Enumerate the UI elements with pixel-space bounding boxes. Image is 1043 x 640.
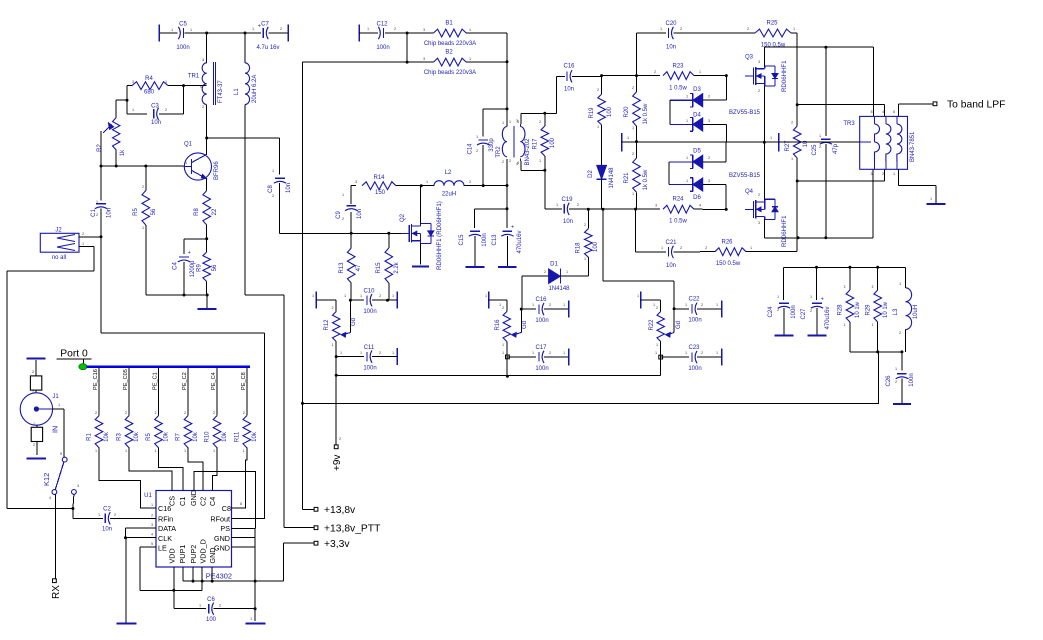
ground Q2 source [412,265,429,267]
svg-text:1: 1 [165,80,167,84]
svg-text:1: 1 [563,351,565,355]
svg-text:+13,8v_PTT: +13,8v_PTT [324,524,381,535]
capacitor C19 [561,197,603,225]
trimmer R12 [324,312,357,342]
svg-text:2: 2 [549,303,551,307]
wire C14 stub [483,109,507,137]
svg-text:1: 1 [899,282,901,286]
svg-text:4.7u 16v: 4.7u 16v [256,45,279,51]
node base-R5 [144,165,147,168]
node R2 top stub [116,99,128,118]
svg-text:1: 1 [566,270,568,274]
wire PS row [237,527,256,529]
svg-text:R28: R28 [838,304,844,316]
resistor R13 [339,233,362,283]
svg-text:R12: R12 [324,319,330,331]
capacitor C20 and riser [637,21,701,76]
resistor R1 [87,411,111,453]
resistor R8 [194,191,218,239]
svg-text:470u16v: 470u16v [825,306,831,329]
pin rect J1 upper [30,376,41,393]
capacitor C16 bias [521,297,568,324]
svg-text:RX: RX [51,585,62,599]
svg-text:PE_C4: PE_C4 [211,372,217,390]
svg-text:C25: C25 [812,144,818,156]
node C27 top [815,266,818,269]
wire K12 out [71,494,103,518]
svg-text:8: 8 [240,502,242,506]
svg-text:2: 2 [502,160,504,164]
svg-text:2: 2 [819,145,821,149]
svg-text:2: 2 [476,149,478,153]
wire R13 node down [349,299,352,333]
wire left border [7,271,73,508]
svg-text:+: + [821,296,824,302]
wire C5-C7 [207,32,245,34]
svg-text:4: 4 [882,110,884,114]
node R20 R21 [635,140,638,143]
transformer TR2 [496,119,531,166]
svg-text:Gd: Gd [351,318,357,326]
wire trimmer2 bottom [506,342,508,377]
svg-text:10n: 10n [102,527,112,533]
source rail [622,133,779,152]
svg-text:100: 100 [607,106,613,117]
svg-text:Q4: Q4 [745,189,754,195]
svg-text:FT43-37: FT43-37 [218,80,224,103]
pad C23 left [659,355,663,359]
net label PE_C05 [123,368,129,415]
svg-text:R14: R14 [373,175,385,181]
wire CLK [124,536,156,539]
svg-text:4: 4 [699,204,701,208]
node D2 bottom [602,208,605,211]
svg-text:B1: B1 [445,21,453,27]
svg-text:47: 47 [356,264,362,271]
svg-text:1: 1 [653,303,655,307]
pin 6 right U1 [232,546,238,548]
svg-text:PE_C1: PE_C1 [153,372,159,390]
svg-text:4: 4 [517,161,519,165]
svg-text:GND: GND [214,534,230,543]
resistor R21 [624,142,649,210]
svg-text:1: 1 [686,156,688,160]
terminal To band LPF [933,100,1005,111]
capacitor C25 [812,47,839,238]
svg-text:100: 100 [593,241,599,252]
capacitor C6 [174,590,255,623]
svg-text:1: 1 [597,125,599,129]
pin 2 left U1 [151,513,157,518]
node bias2 link [506,375,509,378]
svg-text:C24: C24 [768,306,774,318]
svg-text:1: 1 [243,449,245,453]
svg-text:TR2: TR2 [496,146,502,158]
svg-text:2: 2 [155,411,157,415]
svg-text:100n: 100n [688,318,701,324]
svg-text:1: 1 [342,193,344,197]
svg-text:2: 2 [342,217,344,221]
svg-text:10n: 10n [564,87,574,93]
svg-text:R22: R22 [649,319,655,331]
resistor R11 [234,411,257,453]
svg-text:U1: U1 [144,493,152,499]
svg-text:+3,3v: +3,3v [324,539,350,550]
svg-text:2: 2 [339,437,341,441]
svg-text:C19: C19 [561,197,573,203]
svg-text:10n: 10n [666,263,676,269]
zener D4 [670,110,761,142]
wire wiper2 [520,309,522,332]
svg-text:4: 4 [49,496,51,500]
node L1 top junction [244,32,247,35]
node L3 bottom [900,350,903,353]
svg-text:2: 2 [895,380,897,384]
svg-text:BN43-7851: BN43-7851 [910,131,916,162]
svg-text:1: 1 [469,28,471,32]
svg-text:2: 2 [243,411,245,415]
pin rect J1 lower [31,425,42,455]
pin bottom U1 [211,567,213,573]
svg-text:RD06HHF1: RD06HHF1 [781,215,788,247]
svg-text:R25: R25 [766,21,778,27]
svg-text:C5: C5 [179,22,187,28]
svg-text:PUP2: PUP2 [189,545,198,564]
svg-text:B2: B2 [445,50,453,56]
svg-text:1: 1 [686,179,688,183]
svg-text:2: 2 [791,121,793,125]
electrolytic C27 [801,267,831,335]
svg-text:D1: D1 [550,262,558,268]
wire Q2 source [420,244,422,265]
svg-text:1: 1 [632,126,634,130]
wire L1 bottom to PTT riser [245,105,284,528]
svg-text:VDD_D: VDD_D [199,539,208,563]
wire C4 top [184,239,207,254]
terminal bias2 [489,292,507,312]
svg-text:1: 1 [810,295,812,299]
svg-text:C12: C12 [376,22,388,28]
trimmer R2 [97,118,126,167]
svg-text:10uH: 10uH [913,305,919,319]
svg-text:100n: 100n [909,373,915,386]
svg-text:2: 2 [394,27,396,31]
svg-text:TR3: TR3 [843,121,855,127]
svg-text:1: 1 [685,351,687,355]
svg-text:C1: C1 [178,497,187,506]
node B2 left [406,61,409,64]
resistor R14 [351,175,421,196]
node C14 bottom join [482,184,485,187]
svg-text:1: 1 [893,172,895,176]
svg-text:1: 1 [360,351,362,355]
node R29 top [876,266,879,269]
ground chip right [246,617,266,624]
svg-text:2: 2 [219,604,221,608]
svg-text:2: 2 [705,246,707,250]
svg-text:2: 2 [544,270,546,274]
svg-text:100: 100 [550,137,556,148]
svg-text:2: 2 [777,308,779,312]
svg-text:C16: C16 [563,64,575,70]
svg-text:1: 1 [213,449,215,453]
svg-text:3: 3 [708,179,710,183]
svg-text:D4: D4 [693,113,701,119]
svg-text:1: 1 [391,180,393,184]
wire Q2 gate row [280,232,401,234]
svg-text:10k: 10k [104,431,110,442]
svg-text:2: 2 [202,105,204,109]
svg-text:1N4148: 1N4148 [548,286,570,292]
svg-text:1: 1 [360,294,362,298]
wire CLK gnd drop [125,538,127,624]
pin bottom U1 [201,567,203,573]
svg-text:2: 2 [680,27,682,31]
node B2 right [506,60,509,63]
wire TR2 winding top [506,109,508,127]
wire D5 D6 anodes [668,162,670,185]
svg-text:10n: 10n [563,219,573,225]
svg-text:1: 1 [426,180,428,184]
wire B1 B2 left [406,33,408,62]
node bus right [254,580,257,583]
wire bottom stub [211,573,213,582]
wire Q1 emitter [206,179,208,191]
svg-text:1: 1 [125,449,127,453]
svg-text:10 1w: 10 1w [883,301,889,318]
svg-text:C11: C11 [364,345,375,351]
wire winding2 top link [797,105,884,117]
wire C1 bottom to RFout link [101,237,265,519]
node VDDD bus [201,580,204,583]
svg-text:2: 2 [758,193,760,197]
svg-text:2: 2 [577,203,579,207]
zener D6 [669,173,761,209]
wire GND row2 [237,546,256,548]
svg-text:2: 2 [469,180,471,184]
pad C17 left [506,355,510,359]
svg-text:C17: C17 [535,345,547,351]
svg-text:100n: 100n [363,309,376,315]
svg-text:3: 3 [355,180,357,184]
node supply rail C13 [506,207,509,210]
ground J1 lower [27,457,47,459]
wire R5 to C1 pin [159,448,183,491]
electrolytic C13 [492,209,523,267]
svg-text:1: 1 [485,294,487,298]
capacitor C22 [674,297,722,324]
svg-text:150 0.5w: 150 0.5w [716,261,741,267]
svg-text:3: 3 [151,523,153,527]
svg-text:2: 2 [280,27,282,31]
svg-text:1: 1 [499,303,501,307]
svg-text:Gd: Gd [522,321,528,329]
svg-text:1N4148: 1N4148 [609,167,615,189]
svg-text:2: 2 [82,232,84,236]
svg-text:Port 0: Port 0 [60,349,88,360]
svg-text:1: 1 [584,257,586,261]
svg-text:R18: R18 [576,242,582,254]
capacitor C26 [886,352,915,403]
node R29 bottom [876,350,879,353]
svg-text:D2: D2 [588,170,594,178]
wire winding3 top / LPF [898,104,933,117]
svg-text:10n: 10n [357,209,363,219]
ferrite bead B2 [407,50,507,77]
ferrite bead B1 [407,21,507,48]
wire R3 to CS pin [129,448,172,491]
svg-text:C21: C21 [665,240,677,246]
diode D1 [522,262,588,293]
svg-text:1: 1 [750,246,752,250]
wire drain to TR3 p2 [872,169,874,238]
wire PTT feed left [303,61,408,63]
svg-text:LE: LE [158,543,167,552]
wire C1 top [100,131,102,201]
wire VDD_D leg [201,581,203,590]
svg-text:5: 5 [60,452,62,456]
pin bottom U1 [192,567,194,573]
wire TR1 top [206,33,208,63]
trimmer R22 [649,312,682,342]
terminal +3.3v [284,539,351,550]
svg-text:3: 3 [423,57,425,61]
node C22 left [673,307,676,310]
svg-text:PE_C8: PE_C8 [241,372,247,390]
svg-text:2: 2 [708,156,710,160]
capacitor C23 [661,345,722,372]
svg-text:1: 1 [32,390,34,394]
svg-text:2: 2 [680,246,682,250]
wire R25 drop [796,33,798,105]
node R27 mid [796,180,799,183]
svg-text:RFout: RFout [210,514,230,523]
capacitor C16 coupling [556,64,601,93]
svg-text:1: 1 [716,351,718,355]
capacitor C1 [91,204,113,237]
svg-text:1: 1 [532,303,534,307]
svg-text:2: 2 [872,285,874,289]
pin 10 right U1 [232,507,238,509]
svg-text:CLK: CLK [158,534,172,543]
capacitor C11 [336,345,397,372]
svg-text:56: 56 [151,208,157,215]
svg-text:PS: PS [220,524,230,533]
svg-text:2: 2 [33,443,35,447]
svg-text:10 1w: 10 1w [855,301,861,318]
node collector [205,137,208,140]
svg-text:3: 3 [517,120,519,124]
svg-text:1k: 1k [120,149,126,156]
transformer TR3 [843,116,916,169]
node R15 gate junction [387,232,390,235]
connector J2 [7,228,101,272]
capacitor C17 [507,345,568,372]
svg-text:C3: C3 [151,104,159,110]
wire winding3 bottom ground [898,169,945,204]
svg-text:1: 1 [367,27,369,31]
svg-text:100n: 100n [791,305,797,318]
svg-text:RD06HHF1: RD06HHF1 [781,60,788,92]
svg-text:10: 10 [803,140,809,147]
svg-text:1: 1 [660,27,662,31]
wire Q4 source [763,142,765,199]
svg-text:R26: R26 [721,240,733,246]
wire Q4 bias feed [603,209,674,309]
svg-text:C7: C7 [261,22,269,28]
svg-text:C6: C6 [207,597,215,603]
svg-text:1: 1 [770,136,772,140]
svg-text:1: 1 [686,95,688,99]
svg-text:1: 1 [190,28,192,32]
svg-text:100n: 100n [376,45,389,51]
svg-text:C15: C15 [459,234,465,246]
ground J1 upper [26,359,45,376]
svg-text:1: 1 [132,108,134,112]
svg-text:C13: C13 [492,234,498,246]
svg-text:R24: R24 [672,197,684,203]
net label PE_C4 [211,368,217,415]
svg-text:1: 1 [716,303,718,307]
svg-text:1: 1 [312,294,314,298]
wire R11 to C8 pin [232,448,247,509]
pin 8 right U1 [232,527,238,529]
svg-text:J2: J2 [55,228,62,234]
wire bias link rail [336,374,661,376]
svg-text:1: 1 [199,604,201,608]
wire supply riser x507 [506,33,508,62]
svg-text:1: 1 [655,351,657,355]
svg-text:10n: 10n [151,120,161,126]
svg-text:1: 1 [556,203,558,207]
net label PE_C1 [153,368,159,415]
svg-text:1: 1 [155,449,157,453]
node R17 bottom [543,169,546,172]
svg-text:+: + [511,224,514,230]
svg-text:C2: C2 [199,497,208,506]
svg-text:1: 1 [332,343,334,347]
wire TR2 left bottom [506,159,508,209]
node J2 junction [100,235,103,238]
pin numbers (various components) [32,27,932,506]
ground Q1 stage [198,295,217,309]
svg-text:3: 3 [423,28,425,32]
node Q1 collector rail junction [205,32,208,35]
svg-text:D5: D5 [693,149,701,155]
svg-text:C4: C4 [208,497,217,506]
pin 9 right U1 [232,517,238,519]
svg-text:1: 1 [793,27,795,31]
svg-text:1: 1 [184,449,186,453]
svg-text:4: 4 [151,533,153,537]
svg-text:R1: R1 [87,433,93,441]
svg-text:2.2k: 2.2k [394,261,400,273]
svg-text:2: 2 [654,70,656,74]
node bias link left [335,374,338,377]
svg-text:2: 2 [656,306,658,310]
svg-text:2: 2 [899,331,901,335]
svg-text:2: 2 [32,370,34,374]
svg-text:1: 1 [502,343,504,347]
svg-text:C8: C8 [268,185,274,193]
ground chip left [116,623,136,625]
zener D5 [669,142,726,168]
node R19 top [600,74,603,77]
svg-text:2: 2 [502,306,504,310]
wire trimmer3 bottom [660,342,662,376]
svg-text:TR1: TR1 [188,74,200,80]
resistor R27 [785,105,809,252]
